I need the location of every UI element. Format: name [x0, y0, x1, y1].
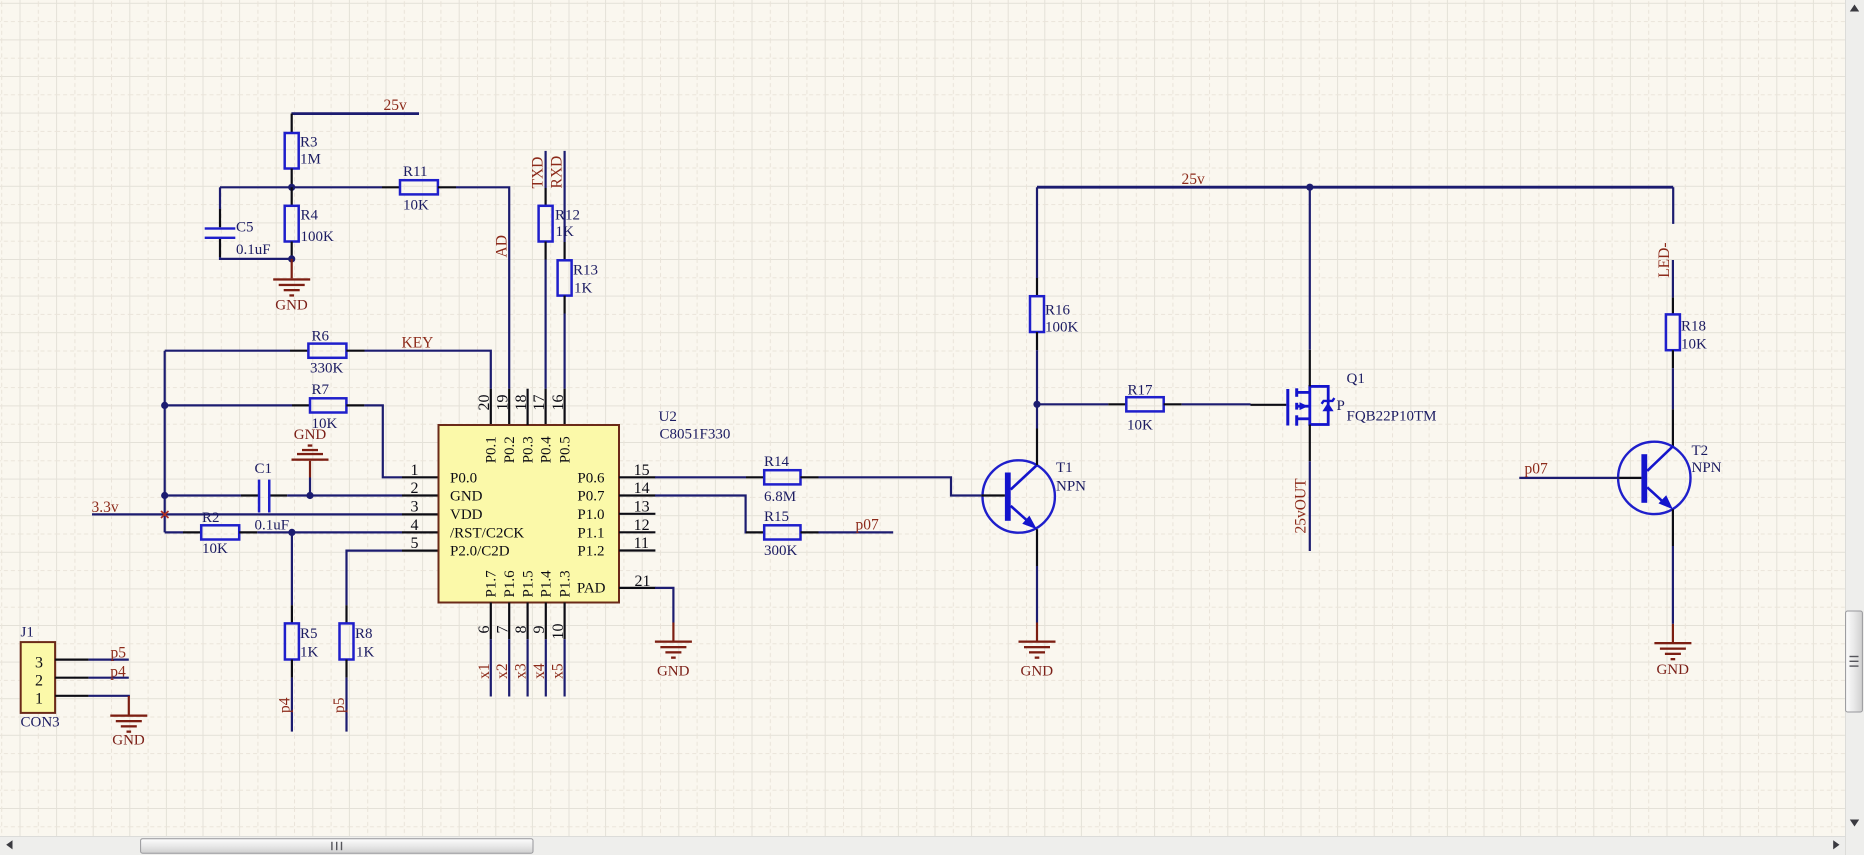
svg-text:p07: p07 — [1525, 460, 1549, 477]
svg-text:10: 10 — [550, 624, 567, 640]
svg-text:U2: U2 — [659, 409, 677, 425]
svg-text:P1.5: P1.5 — [520, 570, 536, 597]
svg-text:GND: GND — [275, 298, 308, 314]
wire R5 to p4 — [291, 678, 293, 732]
resistor R12 — [539, 206, 553, 242]
wire AD net — [456, 187, 509, 388]
svg-text:x5: x5 — [550, 663, 567, 679]
wire R11 right stub — [438, 186, 456, 188]
wire R14 right stub — [801, 476, 819, 478]
svg-text:NPN: NPN — [1056, 478, 1086, 494]
wire R7 right stub — [346, 404, 364, 406]
wire p07 to T2 base — [1519, 477, 1619, 479]
svg-text:GND: GND — [112, 733, 145, 749]
svg-text:J1: J1 — [21, 625, 34, 641]
pin 2 stub — [402, 494, 439, 496]
no-ERC marker cross — [161, 511, 169, 518]
wire C1 to pin 2 — [287, 494, 402, 496]
ground stem T1 — [1036, 623, 1038, 641]
svg-text:100K: 100K — [301, 229, 335, 245]
svg-text:P0.6: P0.6 — [577, 470, 605, 486]
U2 pin 11 stub — [619, 549, 655, 551]
resistor R2 — [201, 525, 239, 539]
wire R2 to pin 4 — [257, 531, 402, 533]
wire 25v rail — [1037, 186, 1673, 189]
wire x4 net — [545, 639, 547, 696]
wire R8 to p5 — [345, 678, 347, 732]
J1 pin 2 stub — [55, 677, 89, 679]
wire R5 bottom stub — [291, 660, 293, 678]
wire R2 row left — [165, 531, 183, 533]
wire R18 to T2 collector — [1672, 368, 1674, 409]
U2 pin 10 stub — [563, 603, 565, 640]
wire R5 column upper — [291, 532, 293, 605]
svg-text:P2.0/C2D: P2.0/C2D — [450, 544, 510, 560]
wire R17 to Q1 gate — [1182, 403, 1251, 405]
wire R2 left stub — [183, 531, 201, 533]
svg-text:RXD: RXD — [549, 156, 566, 189]
wire R16 bottom stub — [1036, 332, 1038, 350]
scrollbar horizontal right arrow — [1833, 840, 1839, 849]
svg-text:P1.2: P1.2 — [577, 544, 604, 560]
svg-text:R8: R8 — [355, 626, 373, 642]
wire R3 to node A — [291, 169, 293, 188]
svg-text:TXD: TXD — [530, 157, 547, 189]
scrollbar vertical down arrow — [1850, 820, 1859, 827]
wire R16 top stub — [1036, 278, 1038, 296]
svg-text:AD: AD — [494, 235, 511, 257]
svg-text:P1.0: P1.0 — [577, 507, 604, 523]
svg-text:2: 2 — [411, 480, 419, 497]
svg-text:R3: R3 — [300, 135, 318, 151]
svg-text:11: 11 — [634, 535, 649, 552]
svg-text:1K: 1K — [300, 644, 319, 660]
wire C1 right pin — [271, 494, 288, 496]
wire RXD net — [563, 151, 565, 242]
wire R14 to T1 base — [819, 477, 982, 495]
svg-text:P0.3: P0.3 — [520, 436, 536, 463]
svg-text:VDD: VDD — [450, 507, 483, 523]
scrollbar horizontal left arrow — [6, 840, 12, 849]
scrollbar horizontal thumb — [141, 839, 533, 854]
svg-text:7: 7 — [495, 626, 512, 634]
U2 pin 9 stub — [545, 603, 547, 640]
resistor R18 — [1666, 314, 1680, 350]
wire R7 to pin 1 — [364, 405, 402, 477]
wire KEY row left — [165, 350, 290, 352]
wire C1 left pin — [241, 494, 259, 496]
wire R12 to pin 17 — [544, 260, 546, 389]
wire R15 to p07 — [819, 531, 894, 533]
wire R16 to T1 collector — [1036, 404, 1038, 428]
svg-text:P0.4: P0.4 — [539, 436, 555, 464]
U2 pin 21 stub — [619, 587, 655, 589]
svg-text:20: 20 — [476, 395, 493, 411]
ground symbol inverted above C1 — [292, 444, 329, 460]
J1 pin 1 stub — [55, 695, 89, 697]
T2 emitter pin — [1672, 509, 1674, 546]
svg-text:10K: 10K — [1681, 337, 1707, 353]
wire C5 top pin — [219, 209, 221, 227]
wire R4 bottom stub — [291, 242, 293, 259]
U2 pin 15 stub — [619, 476, 655, 478]
wire R18 top stub — [1672, 298, 1674, 315]
ground stem J1 — [128, 696, 130, 715]
pin 17 stub — [544, 389, 546, 425]
svg-text:18: 18 — [513, 395, 530, 411]
wire node A horizontal — [220, 186, 382, 188]
wire R8 bottom stub — [345, 660, 347, 678]
Q1 source pin — [1309, 425, 1311, 462]
resistor R17 — [1126, 397, 1163, 411]
svg-text:16: 16 — [550, 395, 567, 411]
ground stem T2 — [1672, 624, 1674, 642]
junction node B — [288, 255, 295, 262]
pin 16 stub — [563, 389, 565, 425]
svg-text:R5: R5 — [300, 626, 318, 642]
T2 collector pin — [1672, 409, 1674, 446]
svg-text:P0.7: P0.7 — [577, 489, 605, 505]
wire 25v rail to R16 — [1036, 187, 1038, 278]
connector J1 — [21, 642, 55, 713]
resistor R6 — [308, 344, 346, 358]
wire row5 to R8 — [347, 551, 403, 606]
svg-text:KEY: KEY — [402, 335, 434, 352]
svg-text:R7: R7 — [312, 382, 330, 398]
junction R5 column — [288, 529, 295, 536]
wire x5 net — [563, 639, 565, 696]
wire R18 bottom stub — [1672, 350, 1674, 368]
svg-text:T2: T2 — [1692, 443, 1709, 459]
svg-text:3: 3 — [35, 654, 43, 671]
svg-text:19: 19 — [495, 395, 512, 411]
svg-text:10K: 10K — [202, 541, 228, 557]
ground symbol J1 — [110, 715, 147, 733]
U2 pin 8 stub — [526, 603, 528, 640]
svg-text:P1.1: P1.1 — [577, 525, 604, 541]
svg-text:25v: 25v — [1182, 171, 1206, 188]
U2 pin 6 stub — [490, 603, 492, 640]
svg-text:3: 3 — [411, 498, 419, 515]
junction C1 row left — [161, 492, 168, 499]
svg-text:25v: 25v — [384, 97, 408, 114]
wire R15 left stub — [746, 531, 764, 533]
U2 pin 7 stub — [508, 603, 510, 640]
transistor T1 — [983, 460, 1055, 532]
J1 pin 3 stub — [55, 658, 89, 660]
wire C5 branch down — [219, 187, 221, 209]
svg-text:4: 4 — [411, 517, 419, 534]
wire x1 net — [490, 639, 492, 696]
svg-text:R6: R6 — [312, 328, 330, 344]
wire R11 left stub — [382, 186, 400, 188]
capacitor C5 — [205, 227, 236, 239]
ground symbol pin21 — [655, 641, 692, 659]
wire J1 pin2 to p4 — [89, 677, 129, 679]
svg-text:1: 1 — [411, 462, 419, 479]
wire J1 pin1 to ground — [89, 696, 129, 697]
resistor R15 — [764, 525, 800, 539]
resistor R16 — [1030, 296, 1044, 332]
wire 25v to R3 — [291, 114, 293, 133]
svg-text:10K: 10K — [1127, 418, 1153, 434]
wire 3.3v net — [92, 513, 402, 515]
svg-text:R11: R11 — [403, 164, 427, 180]
wire R5 top stub — [291, 605, 293, 623]
pin 20 stub — [490, 389, 492, 425]
T1 emitter pin — [1036, 529, 1038, 566]
svg-text:GND: GND — [657, 663, 690, 679]
svg-text:C8051F330: C8051F330 — [660, 426, 731, 442]
svg-text:6.8M: 6.8M — [764, 489, 796, 505]
wire KEY net to pin 20 — [365, 351, 491, 389]
pin 3 stub — [402, 513, 439, 515]
svg-text:P: P — [1337, 398, 1345, 414]
mosfet Q1 — [1286, 386, 1334, 425]
svg-text:P1.4: P1.4 — [539, 570, 555, 598]
svg-text:P0.5: P0.5 — [557, 436, 573, 463]
svg-text:P0.2: P0.2 — [502, 436, 518, 463]
svg-text:100K: 100K — [1045, 319, 1079, 335]
pin 4 stub — [402, 531, 439, 533]
junction R17 row — [1033, 401, 1040, 408]
svg-text:P1.6: P1.6 — [502, 570, 518, 598]
U2 pin 18 stub — [526, 389, 528, 425]
wire R12 bottom stub — [544, 242, 546, 260]
svg-text:CON3: CON3 — [21, 714, 60, 730]
Q1 drain pin — [1309, 350, 1311, 387]
svg-text:330K: 330K — [310, 360, 344, 376]
wire R7 row left — [165, 404, 292, 406]
resistor R5 — [285, 623, 299, 659]
wire R13 to pin 16 — [563, 314, 565, 389]
svg-text:6: 6 — [476, 626, 493, 634]
svg-text:P1.3: P1.3 — [557, 570, 573, 597]
pin 19 stub — [508, 389, 510, 425]
wire x3 net — [526, 639, 528, 696]
wire C5 bottom pin — [219, 239, 221, 257]
wire R15 right stub — [801, 531, 819, 533]
svg-text:p5: p5 — [331, 697, 348, 713]
resistor R13 — [558, 260, 572, 295]
svg-text:300K: 300K — [764, 543, 798, 559]
resistor R8 — [340, 623, 354, 659]
svg-text:R17: R17 — [1128, 382, 1154, 398]
wire R17 left stub — [1108, 403, 1126, 405]
wire R12 top stub — [544, 188, 546, 206]
wire R13 top stub — [563, 242, 565, 260]
svg-text:R14: R14 — [764, 454, 790, 470]
junction node A — [288, 184, 295, 191]
svg-text:R13: R13 — [573, 262, 598, 278]
ground stem pin21 — [672, 623, 674, 641]
pin 5 stub — [402, 549, 439, 551]
resistor R4 — [285, 206, 299, 242]
junction 25v rail Q1 — [1306, 184, 1313, 191]
svg-text:LED-: LED- — [1656, 243, 1673, 278]
svg-text:R15: R15 — [764, 509, 789, 525]
wire node A to R4 stub — [291, 187, 293, 206]
ground symbol below R4 — [273, 278, 310, 296]
transistor T2 — [1618, 442, 1690, 514]
wire pin14 to R15 — [655, 496, 746, 533]
svg-text:9: 9 — [531, 626, 548, 634]
T2 base pin — [1619, 477, 1641, 479]
svg-text:R18: R18 — [1681, 319, 1706, 335]
wire LED- to R18 — [1672, 260, 1674, 298]
svg-text:T1: T1 — [1056, 460, 1073, 476]
ground stem below R4 — [291, 259, 293, 278]
resistor R3 — [285, 133, 299, 169]
junction R7 row — [161, 402, 168, 409]
wire R2 right stub — [239, 531, 257, 533]
svg-text:C5: C5 — [236, 220, 254, 236]
svg-text:x2: x2 — [494, 663, 511, 679]
ground stem above C1 row — [309, 461, 311, 478]
svg-text:p5: p5 — [111, 645, 127, 662]
svg-text:Q1: Q1 — [1347, 371, 1365, 387]
svg-text:PAD: PAD — [577, 581, 606, 597]
wire 25v rail down right — [1672, 187, 1674, 224]
wire R7 left stub — [292, 404, 310, 406]
svg-text:x1: x1 — [476, 663, 493, 679]
U2 pin 13 stub — [619, 513, 655, 515]
wire C1 row left — [165, 494, 241, 496]
wire junction to R17 — [1037, 403, 1108, 405]
power port 25v (left) — [291, 112, 419, 115]
svg-text:1: 1 — [35, 691, 43, 708]
svg-text:P0.1: P0.1 — [484, 436, 500, 463]
svg-text:C1: C1 — [255, 461, 273, 477]
IC U2 body — [439, 425, 620, 603]
resistor R7 — [310, 398, 346, 412]
wire R14 left stub — [746, 476, 764, 478]
T1 collector pin — [1036, 429, 1038, 466]
U2 pin 12 stub — [619, 531, 655, 533]
svg-text:1K: 1K — [574, 281, 593, 297]
svg-text:NPN: NPN — [1692, 460, 1722, 476]
svg-text:5: 5 — [411, 535, 419, 552]
svg-text:GND: GND — [294, 427, 327, 443]
capacitor C1 — [258, 480, 271, 513]
wire R17 right stub — [1164, 403, 1182, 405]
wire 25v rail to Q1 drain — [1309, 187, 1311, 350]
wire pin21 to ground — [655, 588, 673, 623]
Q1 gate pin — [1251, 404, 1287, 406]
scrollbar vertical track — [1845, 0, 1864, 855]
svg-text:R16: R16 — [1045, 302, 1071, 318]
scrollbar vertical up arrow — [1850, 5, 1859, 12]
svg-text:R2: R2 — [202, 510, 220, 526]
wire x2 net — [508, 639, 510, 696]
svg-text:R4: R4 — [301, 208, 319, 224]
resistor R14 — [764, 470, 800, 484]
svg-text:p4: p4 — [110, 663, 126, 680]
junction GND stem — [306, 492, 313, 499]
wire C5 to node B — [220, 257, 292, 259]
wire T1 emitter to ground — [1036, 566, 1038, 623]
ground symbol T1 — [1019, 641, 1056, 659]
svg-text:GND: GND — [1021, 663, 1054, 679]
wire R16 to junction — [1036, 350, 1038, 404]
wire R6 right stub — [346, 350, 364, 352]
svg-text:GND: GND — [1656, 662, 1689, 678]
svg-text:P1.7: P1.7 — [484, 570, 500, 598]
svg-text:x4: x4 — [531, 663, 548, 679]
svg-text:10K: 10K — [403, 198, 429, 214]
U2 pin 14 stub — [619, 494, 655, 496]
svg-text:0.1uF: 0.1uF — [255, 518, 290, 534]
wire R6 left stub — [290, 350, 308, 352]
svg-text:P0.0: P0.0 — [450, 470, 477, 486]
wire left vertical bus — [164, 351, 166, 533]
scrollbar horizontal track — [0, 837, 1845, 855]
scrollbar vertical grip — [1850, 657, 1859, 667]
wire R8 top stub — [345, 605, 347, 623]
ground symbol T2 — [1654, 642, 1691, 660]
svg-text:12: 12 — [634, 517, 650, 534]
svg-text:1K: 1K — [356, 644, 375, 660]
wire R13 bottom stub — [563, 296, 565, 314]
svg-text:1M: 1M — [300, 152, 321, 168]
scrollbar vertical thumb — [1846, 611, 1863, 712]
scrollbar horizontal grip — [332, 842, 342, 850]
wire J1 pin3 to p5 — [89, 658, 129, 660]
wire TXD net — [544, 151, 546, 188]
svg-text:2: 2 — [35, 672, 43, 689]
svg-text:17: 17 — [531, 395, 548, 411]
wire T2 emitter to ground — [1672, 546, 1674, 624]
svg-text:0.1uF: 0.1uF — [236, 242, 271, 258]
svg-text:x3: x3 — [513, 663, 530, 679]
wire pin15 to R14 — [655, 476, 746, 478]
svg-text:13: 13 — [634, 498, 650, 515]
svg-text:R12: R12 — [555, 208, 580, 224]
svg-text:/RST/C2CK: /RST/C2CK — [450, 525, 524, 541]
svg-text:8: 8 — [513, 626, 530, 634]
svg-text:1K: 1K — [556, 224, 575, 240]
svg-text:25vOUT: 25vOUT — [1293, 478, 1310, 534]
T1 base pin — [981, 494, 1005, 496]
resistor R11 — [400, 180, 438, 194]
svg-text:FQB22P10TM: FQB22P10TM — [1347, 409, 1437, 425]
svg-text:p4: p4 — [276, 697, 293, 713]
svg-text:p07: p07 — [856, 517, 880, 534]
svg-text:GND: GND — [450, 489, 483, 505]
wire 25vOUT net — [1309, 461, 1311, 551]
pin 1 stub — [402, 476, 439, 478]
